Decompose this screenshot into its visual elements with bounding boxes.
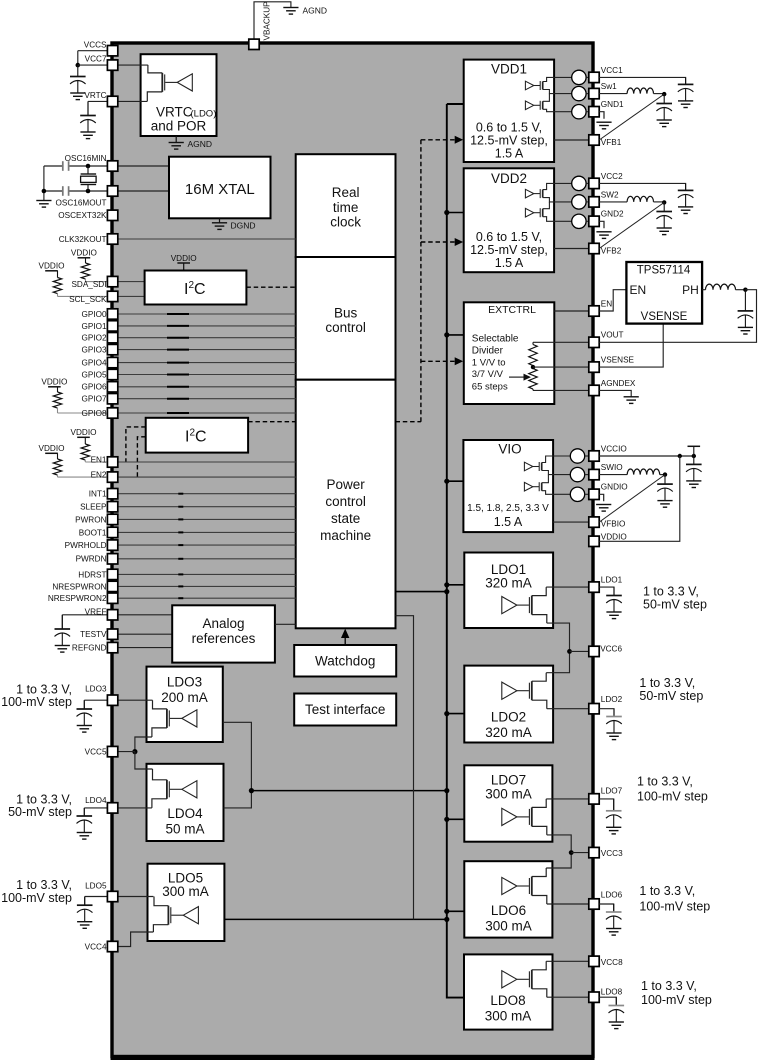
- pin GPIO6: [107, 382, 117, 392]
- svg-text:50-mV step: 50-mV step: [643, 597, 707, 611]
- wire LDO4 output rail: [224, 791, 252, 808]
- svg-text:VFB1: VFB1: [601, 138, 622, 147]
- svg-text:Bus: Bus: [334, 305, 358, 320]
- svg-text:PH: PH: [682, 283, 699, 297]
- resistor R-EN1 pullup: [81, 444, 89, 460]
- wire VCCIO tap: [693, 446, 695, 456]
- wire VFB2 feedback: [599, 202, 664, 248]
- ground C-LDO4 ground: [77, 833, 92, 840]
- bus tick PWRON: [178, 518, 183, 520]
- wire R-GPIO8: [57, 408, 59, 413]
- capacitor C-LDO6: [606, 904, 622, 929]
- wire INT1: [118, 493, 296, 495]
- bump VIO vcc: [553, 455, 570, 457]
- svg-text:time: time: [333, 200, 359, 215]
- pin VFBIO: [589, 517, 599, 527]
- svg-text:I2C: I2C: [184, 280, 206, 298]
- pin LDO8: [589, 992, 599, 1002]
- wire LDO1 cap wire: [599, 587, 614, 595]
- svg-text:VCCIO: VCCIO: [601, 444, 627, 453]
- node bus node LDO6: [444, 909, 449, 914]
- wire VCC6 pin wire: [570, 650, 590, 652]
- node bus node LDO1: [444, 582, 449, 587]
- wire VRTC decoupling: [87, 101, 89, 115]
- wire I2C-2 to EN1: [126, 427, 146, 462]
- svg-text:AGNDEX: AGNDEX: [601, 379, 636, 388]
- resistor R-divider bottom: [529, 369, 537, 390]
- wire EN ext: [599, 290, 626, 311]
- node osc gnd node: [42, 189, 47, 194]
- wire VCCIO to VDDIO: [599, 456, 680, 541]
- node xtal bottom node: [86, 189, 91, 194]
- svg-text:GPIO6: GPIO6: [81, 383, 106, 392]
- block VDD1: [464, 60, 554, 162]
- svg-text:GPIO7: GPIO7: [81, 395, 106, 404]
- node VCCS-VCC7 tie: [76, 63, 81, 68]
- capacitor C-VREF: [55, 615, 71, 646]
- pass transistor and error amp of LDO4: [152, 769, 197, 808]
- block I2C-2: [146, 418, 248, 453]
- svg-text:Real: Real: [332, 185, 360, 200]
- svg-text:VCC5: VCC5: [85, 747, 107, 756]
- svg-text:VDDIO: VDDIO: [171, 254, 197, 263]
- svg-text:GPIO5: GPIO5: [81, 370, 106, 379]
- pin CLK32KOUT: [107, 234, 117, 244]
- pin SCL_SCK: [107, 291, 117, 301]
- wire LDO2 out: [547, 708, 589, 710]
- wire EN2 ext: [58, 476, 113, 478]
- svg-text:VBACKUP: VBACKUP: [263, 1, 272, 41]
- wire HDRST: [118, 573, 296, 575]
- wire VCC5 to LDO4: [135, 752, 153, 769]
- svg-text:GND2: GND2: [601, 210, 624, 219]
- pin VCC3: [589, 847, 599, 857]
- pin OSCEXT32K: [107, 210, 117, 220]
- node bus node PCSM: [444, 589, 449, 594]
- wire SWIO ext: [599, 474, 627, 476]
- wire VDDIO tap SDA: [85, 258, 87, 263]
- wire GPIO8 ext: [58, 412, 113, 414]
- svg-text:REFGND: REFGND: [72, 644, 107, 653]
- wire Sw1 ext: [599, 93, 627, 95]
- node bus node VDD2: [444, 210, 449, 215]
- wire LDO5 output rail: [224, 918, 446, 920]
- ground GNDIO ground: [596, 505, 611, 512]
- pin VCC2: [589, 178, 599, 188]
- svg-text:LDO6: LDO6: [601, 891, 623, 900]
- wire VBACKUP to AGND: [254, 2, 291, 40]
- wire NRESPWRON2: [118, 597, 296, 599]
- wire ctrl to VDD2: [421, 241, 455, 243]
- pin LDO1: [589, 582, 599, 592]
- svg-text:100-mV step: 100-mV step: [637, 790, 708, 804]
- svg-text:Divider: Divider: [472, 346, 504, 357]
- wire LDO7 to VCC3: [546, 835, 571, 868]
- wire VDDIO tap GPIO8: [57, 387, 59, 392]
- pin VOUT: [589, 337, 599, 347]
- wire bus to LDO2: [447, 713, 465, 715]
- wire PWRDN: [118, 558, 296, 560]
- pass transistor and error amp of LDO1: [502, 587, 547, 623]
- wire I2C-2 to EN2: [137, 437, 145, 477]
- node bus node LDO5: [444, 917, 449, 922]
- svg-text:100-mV step: 100-mV step: [1, 891, 72, 905]
- block Bus control: [296, 257, 396, 380]
- block VRTC (LDO) and POR: [141, 54, 217, 136]
- block LDO2: [464, 666, 553, 743]
- power tap VDDIO SCL: [45, 270, 58, 272]
- wire AGNDEX ext: [599, 390, 631, 396]
- svg-text:Test interface: Test interface: [305, 702, 385, 717]
- block VDD2: [464, 168, 554, 272]
- node xtal top node: [86, 164, 91, 169]
- resistor R-SDA pullup: [81, 263, 89, 279]
- wire main bus: [447, 104, 464, 998]
- pin Sw1: [589, 88, 599, 98]
- wire LDO8 out: [547, 996, 589, 998]
- wire VRTC out: [88, 100, 147, 102]
- wire VCC1 ext: [599, 77, 685, 84]
- wire bus to EXTCTRL: [447, 334, 464, 336]
- svg-text:VOUT: VOUT: [601, 331, 624, 340]
- bump VIO sw: [553, 474, 570, 476]
- svg-text:0.6 to 1.5 V,: 0.6 to 1.5 V,: [476, 121, 542, 135]
- node VCC6 node: [567, 649, 572, 654]
- svg-text:clock: clock: [330, 215, 361, 230]
- svg-text:VRTC: VRTC: [156, 105, 193, 120]
- pass transistor and error amp of LDO7: [502, 799, 547, 835]
- power tap VCCIO supply: [688, 445, 701, 447]
- bus tick GPIO1: [167, 325, 189, 327]
- block LDO4: [147, 764, 224, 841]
- svg-text:200 mA: 200 mA: [161, 690, 208, 705]
- svg-text:NRESPWRON2: NRESPWRON2: [48, 594, 107, 603]
- high-side switch of VDD1: [525, 77, 554, 93]
- block Power control state machine: [296, 380, 396, 629]
- svg-text:TPS57114: TPS57114: [637, 265, 691, 277]
- svg-text:OSCEXT32K: OSCEXT32K: [58, 211, 107, 220]
- wire I2C-2 control out: [248, 421, 296, 423]
- pin LDO4: [107, 803, 117, 813]
- inductor L1: [627, 88, 653, 94]
- wire VFBIO feedback: [599, 475, 665, 522]
- ground AGND VRTC: [169, 143, 184, 150]
- node bus node LDO7: [444, 817, 449, 822]
- pin VCCIO: [589, 451, 599, 461]
- svg-text:LDO6: LDO6: [491, 903, 526, 918]
- svg-text:I2C: I2C: [185, 428, 207, 446]
- svg-text:LDO7: LDO7: [601, 787, 623, 796]
- power tap VDDIO EN2: [45, 452, 58, 454]
- ground C-SWIO ground: [657, 501, 672, 508]
- block LDO8: [464, 954, 553, 1029]
- svg-text:300 mA: 300 mA: [485, 786, 532, 801]
- svg-text:LDO8: LDO8: [601, 988, 623, 997]
- capacitor C-VCC7: [70, 65, 86, 93]
- pin PWRDN: [107, 554, 117, 564]
- capacitor C-VCCIO: [686, 456, 702, 481]
- wire bus to LDO6: [447, 910, 465, 912]
- svg-text:VCC8: VCC8: [601, 958, 623, 967]
- pin GPIO1: [107, 321, 117, 331]
- bus tick GPIO7: [167, 398, 189, 400]
- svg-text:VIO: VIO: [498, 442, 521, 457]
- svg-text:GPIO8: GPIO8: [81, 409, 106, 418]
- wire VCC2 ext: [599, 183, 685, 190]
- wire bus to LDO7: [447, 818, 465, 820]
- wire LDO1 out: [546, 586, 589, 588]
- svg-text:1.5 A: 1.5 A: [495, 147, 524, 161]
- svg-text:LDO7: LDO7: [491, 773, 526, 788]
- svg-text:Watchdog: Watchdog: [315, 654, 375, 669]
- ground C-SW1 ground: [657, 120, 672, 127]
- pin REFGND: [107, 642, 117, 652]
- ground C-LDO8 ground: [609, 1022, 624, 1029]
- capacitor C-SW2: [656, 202, 672, 228]
- pin LDO5: [107, 891, 117, 901]
- bus tick GPIO0: [167, 313, 189, 315]
- wire CLK32KOUT: [118, 238, 296, 240]
- block 16M XTAL: [169, 157, 271, 219]
- svg-text:Power: Power: [326, 477, 365, 492]
- capacitor C-SW1: [656, 94, 672, 120]
- svg-text:100-mV step: 100-mV step: [639, 900, 710, 914]
- power tap VDDIO I2C1: [177, 262, 190, 264]
- svg-text:LDO8: LDO8: [490, 993, 525, 1008]
- svg-text:VDDIO: VDDIO: [39, 261, 65, 270]
- pin SW2: [589, 197, 599, 207]
- bus tick BOOT1: [178, 531, 183, 533]
- pin VCC1: [589, 72, 599, 82]
- ground C-LDO6 ground: [606, 929, 621, 936]
- wire SLEEP: [118, 506, 296, 508]
- svg-text:50-mV step: 50-mV step: [8, 805, 72, 819]
- node VCC5 node: [132, 749, 137, 754]
- wire LDO3-4 rail to bus: [251, 790, 446, 792]
- svg-text:and POR: and POR: [151, 119, 207, 134]
- bus tick GPIO5: [167, 374, 189, 376]
- wire VCCS to VCC7 junction: [77, 51, 79, 65]
- node bus node EXTCTRL: [444, 332, 449, 337]
- pass transistor and error amp of VRTC LDO: [147, 65, 192, 102]
- capacitor C-LDO1: [606, 587, 622, 612]
- svg-text:PWRHOLD: PWRHOLD: [65, 541, 107, 550]
- svg-text:LDO3: LDO3: [85, 685, 107, 694]
- svg-text:VCC3: VCC3: [601, 849, 623, 858]
- svg-text:VDDIO: VDDIO: [71, 428, 97, 437]
- capacitor C-SWIO: [657, 475, 673, 501]
- svg-text:1 to 3.3 V,: 1 to 3.3 V,: [641, 979, 697, 993]
- svg-text:VFB2: VFB2: [601, 247, 622, 256]
- arrow into VDD2: [455, 238, 464, 246]
- pin VCC4: [107, 941, 117, 951]
- block I2C-1: [145, 271, 247, 305]
- bus tick NRESPWRON: [178, 585, 183, 587]
- svg-text:1.5 A: 1.5 A: [495, 256, 524, 270]
- wire XTAL to DGND: [219, 218, 221, 223]
- svg-text:AGND: AGND: [303, 6, 328, 16]
- pin OSC16MIN: [107, 161, 117, 171]
- wire R-EN1: [84, 460, 86, 462]
- ground GND1 ground: [596, 122, 611, 129]
- wire GPIO7: [118, 398, 296, 400]
- ground C-LDO3 ground: [77, 726, 92, 733]
- wire VCC8 wire: [546, 960, 589, 962]
- svg-text:CLK32KOUT: CLK32KOUT: [59, 235, 107, 244]
- wire watchdog to PCSM: [344, 636, 346, 645]
- svg-text:BOOT1: BOOT1: [79, 528, 107, 537]
- svg-text:OSC16MOUT: OSC16MOUT: [56, 199, 107, 208]
- pass transistor and error amp of LDO6: [502, 868, 547, 904]
- pin VREF: [107, 610, 117, 620]
- node VCCIO-VDDIO node: [678, 454, 682, 458]
- wire LDO3 cap leg: [83, 700, 85, 709]
- bump VDD1 vcc: [554, 76, 572, 78]
- svg-text:AGND: AGND: [188, 139, 213, 149]
- pin OSC16MOUT: [107, 186, 117, 196]
- svg-text:LDO2: LDO2: [491, 710, 526, 725]
- svg-text:VSENSE: VSENSE: [641, 311, 688, 323]
- wire TESTV: [118, 633, 172, 635]
- wire GND2 stub: [599, 221, 604, 228]
- svg-text:GND1: GND1: [601, 100, 624, 109]
- pin GPIO4: [107, 357, 117, 367]
- block TPS57114 (U2): [626, 262, 702, 324]
- wire analog refs to PCSM: [275, 623, 296, 625]
- wire VCC4 to LDO5: [118, 932, 154, 947]
- block VIO: [463, 440, 553, 532]
- svg-text:Selectable: Selectable: [472, 334, 519, 345]
- capacitor C-OSC1: [63, 161, 69, 171]
- pin VDDIO: [589, 536, 599, 546]
- pin VCC5: [107, 746, 117, 756]
- wire ctrl to EXTCTRL: [421, 360, 455, 362]
- svg-text:VDDIO: VDDIO: [41, 377, 67, 386]
- svg-text:1 V/V to: 1 V/V to: [472, 358, 506, 369]
- svg-text:1 to 3.3 V,: 1 to 3.3 V,: [637, 775, 693, 789]
- pin GND1: [589, 107, 599, 117]
- svg-text:TESTV: TESTV: [80, 630, 107, 639]
- wire VREF: [62, 614, 172, 616]
- wire VCC3 pin wire: [571, 852, 589, 854]
- capacitor C-LDO5: [77, 897, 93, 922]
- wire VCCS: [78, 50, 113, 52]
- wire divider bottom: [532, 389, 534, 390]
- svg-text:300 mA: 300 mA: [485, 1009, 532, 1024]
- block Real time clock: [296, 154, 396, 257]
- wire VDDIO tap EN1: [84, 437, 86, 444]
- inductor L2: [627, 196, 653, 202]
- wire VCCIO ext: [599, 455, 694, 457]
- ground C-LDO5 ground: [77, 922, 92, 929]
- resistor R-SCL pullup: [53, 278, 61, 294]
- bump VDD1 gnd: [554, 111, 572, 113]
- block LDO3: [147, 667, 223, 742]
- wire ctrl to VDD1: [421, 139, 455, 141]
- ground C-VCCIO ground: [686, 481, 701, 488]
- wire LDO6 out: [547, 903, 589, 905]
- svg-text:DGND: DGND: [231, 221, 256, 231]
- wire R-EN2: [57, 475, 59, 477]
- svg-text:VCCS: VCCS: [84, 40, 107, 49]
- svg-text:PWRDN: PWRDN: [76, 555, 107, 564]
- bus tick HDRST: [178, 573, 183, 575]
- wire GPIO4: [118, 362, 296, 364]
- arrow into VDD1: [455, 136, 464, 144]
- wire LDO4 out: [84, 807, 152, 809]
- wire VSENSE ext: [599, 324, 663, 368]
- ground C-VCC1 ground: [678, 101, 693, 108]
- capacitor C-VRTC: [80, 101, 96, 132]
- svg-text:GPIO2: GPIO2: [81, 334, 106, 343]
- pin GPIO3: [107, 344, 117, 354]
- bump VDD2 sw: [554, 201, 572, 203]
- svg-text:SW2: SW2: [601, 190, 619, 199]
- bump VDD2 vcc: [554, 182, 572, 184]
- crystal Y1: [81, 166, 97, 191]
- svg-text:LDO4: LDO4: [167, 806, 203, 821]
- bump VIO gnd: [553, 493, 570, 495]
- bus tick SLEEP: [178, 506, 183, 508]
- wire PH ext b: [736, 289, 746, 291]
- svg-text:GPIO3: GPIO3: [81, 346, 106, 355]
- svg-text:EXTCTRL: EXTCTRL: [488, 304, 536, 316]
- pin VSENSE: [589, 362, 599, 372]
- wire VDDIO tap to I2C: [183, 263, 185, 271]
- pin EN2: [107, 472, 117, 482]
- ground C-VRTC ground: [80, 132, 95, 139]
- svg-text:SLEEP: SLEEP: [80, 503, 107, 512]
- wire LDO1 to VCC6: [546, 623, 569, 673]
- ground AGND top: [283, 8, 298, 15]
- wire VCC5 to LDO3: [135, 737, 152, 752]
- wire GPIO5: [118, 374, 296, 376]
- pin VRTC: [107, 96, 117, 106]
- resistor R-EN2 pullup: [53, 459, 61, 475]
- pin VFB2: [589, 243, 599, 253]
- wire EN1 ext: [85, 461, 112, 463]
- svg-text:control: control: [325, 320, 366, 335]
- bus tick GPIO6: [167, 386, 189, 388]
- svg-text:300 mA: 300 mA: [485, 919, 532, 934]
- high-side switch of VIO: [524, 456, 553, 475]
- wire VDDIO tap EN2: [57, 453, 59, 459]
- svg-text:VDD2: VDD2: [491, 171, 527, 186]
- node VCCIO cap node: [692, 454, 696, 458]
- bus tick NRESPWRON2: [178, 597, 183, 599]
- block LDO1: [464, 553, 553, 629]
- bump VDD2 gnd: [554, 220, 572, 222]
- svg-text:LDO5: LDO5: [85, 881, 107, 890]
- node VCC3 node: [569, 850, 574, 855]
- block Analog references: [172, 605, 275, 662]
- wire PCSM aux rail: [396, 616, 414, 920]
- ground C-VCC2 ground: [678, 207, 693, 214]
- pin GND2: [589, 216, 599, 226]
- wire LDO7 cap wire: [599, 799, 614, 811]
- svg-text:SCL_SCK: SCL_SCK: [69, 295, 107, 304]
- high-side switch of VDD2: [525, 183, 554, 202]
- node SWIO node: [663, 472, 667, 476]
- pin GPIO2: [107, 333, 117, 343]
- pin LDO2: [589, 704, 599, 714]
- svg-text:GPIO0: GPIO0: [81, 310, 106, 319]
- svg-text:1.5 A: 1.5 A: [494, 515, 523, 529]
- wire SCL_SCK ext: [58, 295, 113, 297]
- svg-text:machine: machine: [320, 528, 371, 543]
- bus tick PWRDN: [178, 558, 183, 560]
- wire SDA_SDI ext: [86, 281, 113, 283]
